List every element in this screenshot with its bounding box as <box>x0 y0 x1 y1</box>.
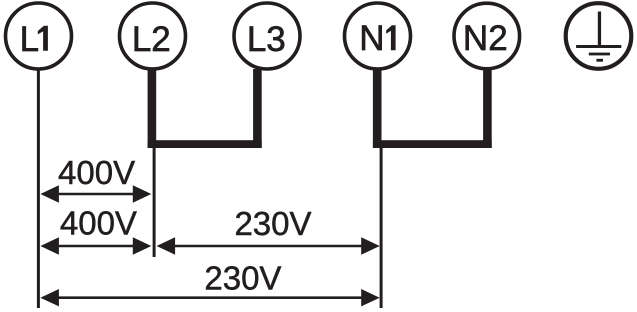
svg-text:400V: 400V <box>58 154 135 191</box>
svg-text:230V: 230V <box>204 260 281 297</box>
bridge link L2-L3 <box>148 69 262 148</box>
terminal L1 <box>6 3 72 69</box>
svg-text:400V: 400V <box>60 205 137 242</box>
terminal L3 <box>234 3 300 69</box>
wire from N1 bridge (dimension line) <box>380 148 383 308</box>
wire from L1 (dimension line) <box>37 71 40 309</box>
dimension arrow 230V row3 (L1 to N1) <box>40 289 379 306</box>
svg-text:N: N <box>359 19 384 58</box>
dimension arrow 230V row2 (L2 to N1) <box>157 237 380 254</box>
wire from L2 bridge (dimension line) <box>153 148 156 257</box>
terminal N2 <box>454 3 520 69</box>
bridge link N1-N2 <box>373 70 492 148</box>
svg-text:230V: 230V <box>234 205 311 242</box>
earth symbol PE <box>566 3 632 69</box>
svg-text:L: L <box>20 20 39 59</box>
svg-text:N2: N2 <box>463 19 508 58</box>
svg-text:L3: L3 <box>247 20 286 59</box>
dimension arrow 400V row1 (L1 to L2) <box>40 185 151 202</box>
terminal N1 <box>345 3 411 69</box>
dimension arrow 400V row2 (L1 to L2) <box>40 237 151 254</box>
svg-text:L2: L2 <box>132 20 171 59</box>
terminal L2 <box>120 3 186 69</box>
